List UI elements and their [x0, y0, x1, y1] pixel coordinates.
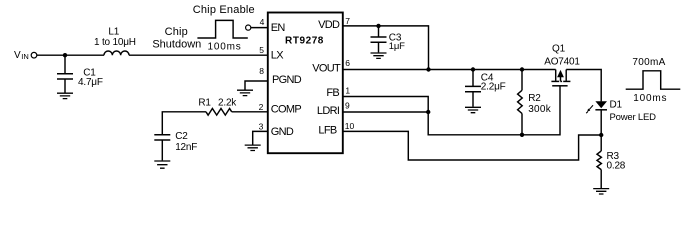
svg-text:LFB: LFB: [318, 124, 336, 136]
svg-text:100ms: 100ms: [207, 41, 241, 52]
svg-text:2.2k: 2.2k: [218, 97, 237, 108]
svg-text:4: 4: [260, 17, 265, 27]
svg-text:2.2μF: 2.2μF: [481, 81, 506, 92]
svg-text:COMP: COMP: [271, 104, 302, 116]
svg-text:1 to 10μH: 1 to 10μH: [94, 37, 136, 48]
svg-text:R1: R1: [198, 97, 211, 108]
svg-text:4.7μF: 4.7μF: [78, 77, 103, 88]
svg-text:LDRI: LDRI: [317, 105, 340, 117]
svg-text:R2: R2: [528, 93, 541, 104]
svg-text:9: 9: [345, 101, 350, 111]
svg-text:0.28: 0.28: [607, 161, 626, 172]
svg-text:100ms: 100ms: [633, 93, 667, 104]
svg-text:5: 5: [259, 45, 264, 55]
svg-text:VDD: VDD: [318, 19, 340, 31]
svg-text:700mA: 700mA: [632, 57, 665, 68]
svg-text:12nF: 12nF: [175, 142, 197, 153]
svg-text:2: 2: [259, 102, 264, 112]
svg-text:PGND: PGND: [272, 74, 302, 86]
svg-text:LX: LX: [271, 50, 284, 62]
svg-text:Chip: Chip: [165, 26, 188, 38]
svg-text:Q1: Q1: [552, 43, 566, 54]
svg-text:10: 10: [345, 121, 355, 131]
svg-text:Chip Enable: Chip Enable: [193, 4, 255, 16]
svg-text:D1: D1: [610, 100, 623, 111]
svg-text:Power LED: Power LED: [610, 112, 657, 123]
svg-text:IN: IN: [21, 52, 29, 61]
svg-text:3: 3: [259, 122, 264, 132]
svg-text:1μF: 1μF: [389, 41, 405, 52]
svg-text:FB: FB: [326, 87, 339, 99]
svg-text:EN: EN: [271, 22, 286, 34]
svg-text:AO7401: AO7401: [544, 56, 580, 67]
svg-text:C2: C2: [175, 131, 188, 142]
svg-text:8: 8: [259, 66, 264, 76]
svg-text:GND: GND: [271, 126, 294, 138]
svg-text:1: 1: [345, 85, 350, 95]
svg-text:VOUT: VOUT: [312, 62, 341, 74]
svg-text:300k: 300k: [528, 104, 552, 115]
svg-text:7: 7: [345, 16, 350, 26]
svg-text:6: 6: [345, 58, 350, 68]
svg-text:V: V: [14, 50, 21, 61]
svg-text:Shutdown: Shutdown: [152, 38, 201, 50]
svg-text:RT9278: RT9278: [285, 36, 324, 47]
